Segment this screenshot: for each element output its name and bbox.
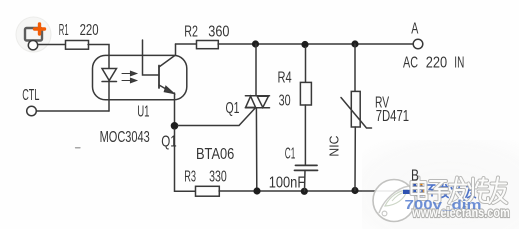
svg-text:360: 360 xyxy=(208,24,229,41)
node junction top 2 xyxy=(301,41,308,48)
svg-text:B: B xyxy=(411,168,419,185)
node junction bottom 1 xyxy=(253,187,260,194)
wire gate node to triac gate xyxy=(178,108,255,125)
watermark blue logo icon xyxy=(403,181,426,196)
svg-text:Q1: Q1 xyxy=(226,100,240,117)
svg-text:AC: AC xyxy=(403,55,418,72)
resistor R1 xyxy=(66,41,89,50)
wire gate node down to R3 xyxy=(175,129,196,191)
watermark area wash xyxy=(0,0,1,1)
wire bottom rail xyxy=(219,190,407,192)
watermark icon top-left xyxy=(16,17,51,52)
node junction bottom 2 xyxy=(301,188,308,195)
svg-text:CTL: CTL xyxy=(22,87,39,104)
svg-text:330: 330 xyxy=(209,168,227,185)
watermark blue CJK text (small) xyxy=(415,184,477,199)
wire U1 emitter down to gate node xyxy=(174,93,176,126)
svg-text:R1: R1 xyxy=(59,22,69,39)
svg-text:U1: U1 xyxy=(137,104,149,121)
wire input terminal to R1 xyxy=(37,44,65,46)
svg-text:100nF: 100nF xyxy=(269,175,306,192)
capacitor C1 xyxy=(295,105,318,191)
LED inside U1 xyxy=(102,69,117,112)
resistor R3 xyxy=(196,186,220,196)
watermark grey CJK 电子发烧友 xyxy=(412,178,507,204)
optocoupler U1 body xyxy=(93,55,187,99)
transistor Q1 triac xyxy=(245,44,269,191)
svg-text:A: A xyxy=(411,20,419,37)
svg-text:IN: IN xyxy=(454,55,464,72)
svg-text:Q1: Q1 xyxy=(161,134,177,151)
wire U1 collector to R2 xyxy=(176,43,197,45)
node junction top 1 xyxy=(252,40,259,47)
char dian xyxy=(412,178,427,200)
node Q1 gate junction xyxy=(171,122,179,130)
svg-text:R3: R3 xyxy=(184,168,196,185)
svg-text:700v_dim: 700v_dim xyxy=(405,197,482,212)
svg-text:C1: C1 xyxy=(285,146,296,163)
svg-text:R2: R2 xyxy=(184,24,198,41)
svg-text:30: 30 xyxy=(279,93,291,110)
node input terminal xyxy=(28,41,37,50)
node junction bottom 3 xyxy=(351,187,358,194)
varistor RV xyxy=(341,44,372,191)
resistor R2 xyxy=(197,41,219,49)
svg-text:220: 220 xyxy=(80,22,99,39)
char you xyxy=(490,178,507,204)
svg-text:220: 220 xyxy=(426,55,448,72)
node CTL terminal xyxy=(27,106,37,116)
svg-text:R4: R4 xyxy=(278,70,292,87)
transistor Q (phototransistor in U1) xyxy=(143,40,176,93)
node terminal B (mostly hidden by watermark) xyxy=(413,186,423,196)
wire R1 to opto LED anode xyxy=(88,45,109,69)
node junction top 3 xyxy=(351,40,358,47)
wire LED cathode to CTL terminal xyxy=(37,110,109,112)
char fa xyxy=(449,178,467,204)
svg-text:NIC: NIC xyxy=(326,136,341,157)
svg-text:BTA06: BTA06 xyxy=(196,146,234,163)
resistor R4 xyxy=(300,47,311,105)
svg-text:7D471: 7D471 xyxy=(376,108,409,125)
wire R2 to terminal A xyxy=(218,43,414,45)
stray mark artifact xyxy=(76,147,81,149)
char shao xyxy=(468,178,489,203)
char zi xyxy=(429,181,449,202)
svg-text:MOC3043: MOC3043 xyxy=(100,129,150,146)
light arrows xyxy=(122,71,137,82)
watermark logo circle bottom-right xyxy=(373,180,415,222)
node terminal A xyxy=(413,39,423,49)
